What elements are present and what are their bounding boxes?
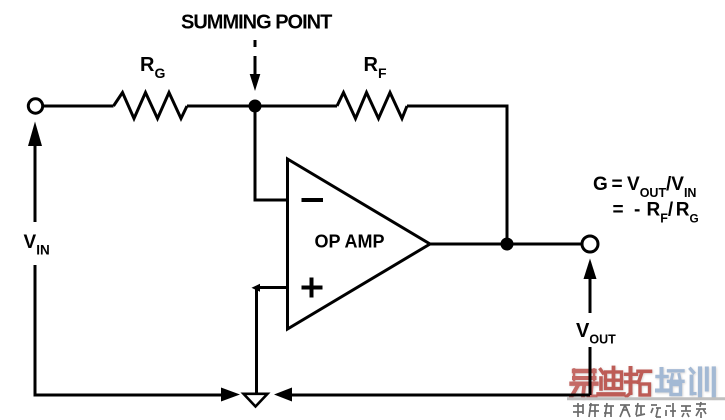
- VOUT arrow (up): [584, 259, 597, 280]
- op-amp U1: [288, 159, 431, 329]
- wire: output from op-amp apex to output terminal: [430, 243, 582, 246]
- summing node junction: [249, 100, 262, 113]
- svg-text:=-RF/RG: =-RF/RG: [613, 200, 699, 226]
- svg-text:RG: RG: [140, 54, 165, 81]
- watermark logo line 1: 易迪拓培训: [572, 368, 714, 398]
- input terminal VIN: [28, 99, 42, 113]
- wire: bottom right to VOUT column: [291, 394, 590, 397]
- small arrowhead at noninverting corner: [252, 284, 261, 292]
- svg-text:RF: RF: [364, 54, 387, 81]
- ground symbol: [244, 394, 268, 407]
- glyph 训: [691, 369, 714, 396]
- watermark line 2: 射频和天线设计专家: [573, 402, 706, 418]
- arrowhead into ground (left): [221, 388, 240, 402]
- arrowhead into ground (right): [274, 388, 292, 402]
- wire: VOUT vertical lower segment: [589, 347, 592, 395]
- resistor RF: [337, 93, 407, 119]
- output node junction: [501, 238, 514, 251]
- svg-text:VIN: VIN: [24, 232, 50, 258]
- glyph 拓: [626, 368, 651, 397]
- wire: VOUT vertical upper segment: [589, 278, 592, 313]
- dashed arrow to summing point: [250, 40, 261, 91]
- minus symbol (inverting input): [302, 198, 324, 202]
- resistor RG: [114, 93, 188, 119]
- wire: RF to feedback corner, down to output node: [407, 106, 507, 244]
- svg-text:OP AMP: OP AMP: [315, 232, 385, 252]
- glyph 易: [572, 370, 597, 398]
- VIN arrow (up): [28, 122, 42, 147]
- watermark underline: [567, 397, 725, 400]
- glyph 培: [657, 369, 683, 395]
- svg-text:VOUT: VOUT: [576, 320, 616, 347]
- wire: RG to RF through summing node: [187, 105, 337, 108]
- svg-text:SUMMING POINT: SUMMING POINT: [181, 12, 332, 34]
- wire: input terminal to RG: [44, 105, 114, 108]
- wire: VIN vertical upper segment: [34, 145, 37, 222]
- svg-text:G=VOUT/VIN: G=VOUT/VIN: [593, 174, 696, 200]
- plus symbol (noninverting input): [302, 278, 323, 298]
- wire: summing node to inverting input: [255, 106, 288, 200]
- glyph 迪: [599, 368, 624, 395]
- wire: noninverting input to ground column: [257, 288, 288, 394]
- wire: VIN vertical lower segment and bottom-left wire: [35, 265, 222, 395]
- output terminal VOUT: [582, 236, 598, 252]
